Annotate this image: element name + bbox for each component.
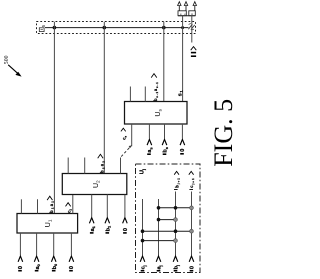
svg-text:Uj: Uj xyxy=(140,169,146,174)
ket |0> U2 input xyxy=(123,218,130,233)
ket |c j> detail input 1 xyxy=(140,256,147,271)
U2 input wire 2 xyxy=(91,195,93,217)
svg-text:0: 0 xyxy=(190,266,196,269)
ket |b1 a1> on wire bus to U1 xyxy=(47,196,55,213)
label 500 xyxy=(4,55,10,64)
svg-text:0: 0 xyxy=(190,13,194,15)
leader arrow for 500 xyxy=(8,65,21,77)
ket |1> xyxy=(191,47,197,57)
qubit line 4 (ancilla) xyxy=(191,192,193,256)
output cell box R2 xyxy=(189,11,196,16)
svg-text:500: 500 xyxy=(4,55,10,64)
ket |b0> U1 input 3 xyxy=(51,256,58,271)
Us top stub 2 xyxy=(144,87,146,102)
svg-text:aj: aj xyxy=(157,265,163,269)
bus node junction dot 3 xyxy=(162,26,166,30)
ket |c1> on carry wire xyxy=(66,203,73,213)
ket |c j+1> output xyxy=(189,171,195,189)
svg-text:0: 0 xyxy=(69,266,75,269)
ket |a1> U2 input xyxy=(89,218,96,233)
ket |b2 a2> on wire bus to U2 xyxy=(98,154,106,173)
ellipsis dashed link U2 to Us xyxy=(121,145,131,156)
Us input wire 3 xyxy=(164,124,166,139)
U2 top stub 2 xyxy=(84,158,86,174)
output arrow 2 xyxy=(184,2,187,11)
output cell box R1 xyxy=(178,11,186,16)
adder block Us xyxy=(125,102,188,125)
svg-text:b1: b1 xyxy=(106,225,112,231)
svg-text:a0: a0 xyxy=(35,264,41,269)
figure caption FIG. 5 xyxy=(209,99,238,167)
output arrow 1 xyxy=(178,2,181,11)
ket |b j> detail input 3 xyxy=(173,256,180,271)
U1 top stub 2 xyxy=(37,199,39,213)
bus node junction dot 2 xyxy=(103,26,107,30)
ket |0> Us input xyxy=(180,139,186,153)
U2 top stub 1 xyxy=(67,158,69,174)
ket |b s-1 a s-1> on wire bus to Us xyxy=(151,74,159,101)
svg-text:0: 0 xyxy=(180,149,186,152)
bus node junction dot 4 xyxy=(181,26,184,29)
output arrow 3 xyxy=(193,2,196,11)
ket |b1> U2 input xyxy=(105,218,112,233)
U1 input wire 1 xyxy=(19,233,21,255)
ket |a s-1> Us input xyxy=(147,139,153,154)
ket |b j+1> output xyxy=(174,171,180,189)
qubit line 2 (a) xyxy=(158,199,160,255)
ket |0> U1 input 4 xyxy=(69,256,75,271)
svg-text:FIG. 5: FIG. 5 xyxy=(209,99,238,167)
U2 input wire 3 xyxy=(106,195,108,217)
adder block U2 xyxy=(62,174,127,195)
bus right annotation xyxy=(188,23,194,30)
svg-text:as: as xyxy=(147,147,153,152)
svg-text:b0: b0 xyxy=(52,264,58,270)
gate row B CNOT xyxy=(157,218,178,222)
svg-text:bs: bs xyxy=(163,147,169,153)
U2 input wire 4 xyxy=(124,195,126,217)
svg-text:bj: bj xyxy=(174,265,180,269)
detail box Uj (dash-dot) xyxy=(136,164,201,273)
ket |b s-1> Us input xyxy=(162,139,169,154)
U1 input wire 4 xyxy=(70,233,72,255)
ket |0> U1 input 1 xyxy=(18,256,24,271)
bus wire xyxy=(45,27,189,29)
Us carry-in wire xyxy=(131,124,133,146)
bus node junction dot 1 xyxy=(53,26,57,30)
qubit line 1 (c) xyxy=(142,199,144,255)
gate row D CNOT xyxy=(141,239,178,243)
bus label xyxy=(39,24,46,31)
ket |c s-1> on Us carry wire xyxy=(121,128,128,140)
ket |a0> U1 input 2 xyxy=(34,256,41,271)
svg-text:0: 0 xyxy=(123,228,129,231)
Us input wire 2 xyxy=(148,124,150,139)
svg-text:a1: a1 xyxy=(90,225,96,231)
svg-text:0: 0 xyxy=(18,266,24,269)
gate row A Toffoli xyxy=(157,206,194,210)
output cell bottom rail xyxy=(178,15,195,17)
wire bus to U2 xyxy=(103,22,105,174)
wire output cell to Us xyxy=(182,16,184,102)
ket |a j> detail input 2 xyxy=(156,256,163,271)
register bus (dashed box) xyxy=(37,22,196,34)
carry wire U1 to U2 xyxy=(72,195,74,214)
wire bus to Us xyxy=(163,22,165,102)
U1 input wire 3 xyxy=(53,233,55,255)
label s1 on wire to output cell xyxy=(177,90,183,97)
Us input wire 4 xyxy=(181,124,183,139)
U2 carry-out riser xyxy=(120,158,122,174)
qubit line 3 (b) xyxy=(175,192,177,256)
U1 top stub 1 xyxy=(20,199,22,213)
ket |0> detail input 4 xyxy=(189,256,196,271)
gate row C Toffoli xyxy=(141,229,194,233)
svg-text:c: c xyxy=(128,146,132,148)
U1 input wire 2 xyxy=(36,233,38,255)
Us top stub 1 xyxy=(129,87,131,102)
wire ancilla one xyxy=(191,16,193,43)
adder block U1 xyxy=(17,214,78,234)
wire bus to U1 xyxy=(53,22,55,214)
svg-text:cj: cj xyxy=(141,265,147,269)
